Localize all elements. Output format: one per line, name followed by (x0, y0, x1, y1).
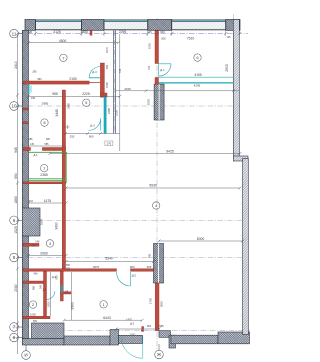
svg-text:965: 965 (147, 265, 152, 269)
svg-text:2205: 2205 (114, 109, 118, 116)
svg-text:145: 145 (30, 143, 35, 146)
svg-text:1925: 1925 (147, 98, 151, 105)
svg-text:980: 980 (37, 78, 42, 81)
svg-text:1865: 1865 (14, 196, 18, 204)
svg-text:255: 255 (70, 134, 75, 138)
svg-text:2410: 2410 (14, 61, 18, 69)
svg-text:170: 170 (107, 142, 112, 146)
svg-text:750: 750 (147, 65, 151, 70)
svg-text:Д-3: Д-3 (130, 321, 135, 325)
svg-text:590: 590 (14, 173, 18, 179)
svg-text:2485: 2485 (107, 107, 111, 114)
svg-text:3445: 3445 (55, 109, 59, 117)
svg-text:145: 145 (147, 31, 152, 34)
svg-text:900: 900 (161, 37, 166, 41)
svg-text:2125: 2125 (53, 30, 61, 34)
svg-text:5930: 5930 (149, 184, 157, 188)
svg-text:1865: 1865 (40, 218, 44, 225)
svg-text:1810: 1810 (46, 301, 50, 307)
svg-text:3975: 3975 (93, 265, 100, 269)
svg-text:900: 900 (56, 275, 59, 280)
svg-text:9: 9 (13, 218, 16, 223)
svg-text:Д-1: Д-1 (160, 68, 165, 72)
svg-text:Д-3: Д-3 (90, 124, 95, 128)
svg-text:2810: 2810 (159, 300, 163, 307)
svg-text:2060: 2060 (40, 252, 48, 256)
svg-text:900: 900 (149, 253, 152, 258)
svg-text:1930: 1930 (105, 82, 109, 88)
svg-text:145: 145 (35, 241, 40, 244)
svg-text:3430: 3430 (55, 222, 59, 230)
svg-text:Д-1: Д-1 (33, 153, 38, 157)
svg-text:2225: 2225 (82, 92, 90, 96)
svg-text:195: 195 (28, 31, 33, 34)
svg-text:11: 11 (12, 31, 17, 36)
svg-text:2080: 2080 (14, 284, 18, 292)
svg-text:1750: 1750 (149, 297, 153, 304)
svg-text:585: 585 (45, 143, 50, 146)
svg-text:600: 600 (160, 30, 165, 34)
svg-text:6: 6 (13, 335, 16, 340)
svg-text:145: 145 (227, 36, 232, 39)
svg-text:940: 940 (34, 272, 39, 275)
svg-text:2985: 2985 (42, 102, 49, 106)
svg-text:285: 285 (32, 71, 37, 74)
svg-text:5000: 5000 (197, 237, 205, 241)
svg-text:4295: 4295 (194, 83, 201, 87)
svg-text:1475: 1475 (44, 199, 52, 203)
svg-text:4500: 4500 (59, 39, 67, 43)
svg-text:710: 710 (29, 200, 34, 203)
svg-text:2150: 2150 (69, 77, 77, 81)
svg-text:7510: 7510 (187, 37, 195, 41)
svg-text:945: 945 (14, 147, 18, 153)
svg-text:1970: 1970 (105, 47, 109, 53)
svg-text:900: 900 (106, 64, 109, 69)
svg-text:2295: 2295 (119, 30, 127, 34)
svg-text:345: 345 (40, 284, 43, 289)
svg-text:3015: 3015 (124, 87, 131, 91)
svg-text:6443: 6443 (103, 316, 111, 320)
svg-text:Д-3: Д-3 (92, 70, 97, 74)
svg-text:1525: 1525 (14, 226, 18, 234)
svg-text:5340: 5340 (105, 256, 113, 260)
svg-text:195: 195 (66, 267, 71, 270)
svg-text:900: 900 (89, 134, 94, 138)
svg-text:1150: 1150 (129, 332, 135, 336)
svg-text:2385: 2385 (40, 173, 48, 177)
svg-text:1980: 1980 (80, 30, 88, 34)
svg-text:185: 185 (29, 138, 34, 141)
svg-text:960: 960 (32, 285, 35, 290)
svg-text:1475: 1475 (126, 317, 132, 321)
svg-text:2905: 2905 (225, 64, 229, 72)
svg-text:3963: 3963 (71, 302, 75, 310)
svg-text:585: 585 (31, 244, 36, 247)
svg-text:985: 985 (52, 92, 58, 96)
svg-text:900: 900 (130, 265, 135, 269)
svg-text:И: И (24, 353, 27, 358)
svg-text:4195: 4195 (194, 73, 202, 77)
svg-text:Д-2: Д-2 (132, 274, 137, 278)
svg-text:960: 960 (147, 324, 152, 328)
svg-text:195: 195 (31, 97, 36, 100)
svg-text:1060: 1060 (30, 312, 36, 316)
svg-text:105: 105 (64, 290, 69, 293)
svg-text:1510: 1510 (147, 42, 151, 49)
svg-text:900: 900 (46, 138, 51, 141)
svg-text:2485: 2485 (67, 103, 71, 109)
svg-text:7: 7 (13, 325, 16, 330)
svg-text:745: 745 (118, 68, 122, 73)
svg-text:10: 10 (11, 104, 17, 109)
svg-text:8: 8 (13, 255, 16, 260)
svg-text:9425: 9425 (166, 149, 174, 153)
svg-text:560: 560 (33, 320, 38, 323)
svg-text:685: 685 (159, 324, 164, 328)
